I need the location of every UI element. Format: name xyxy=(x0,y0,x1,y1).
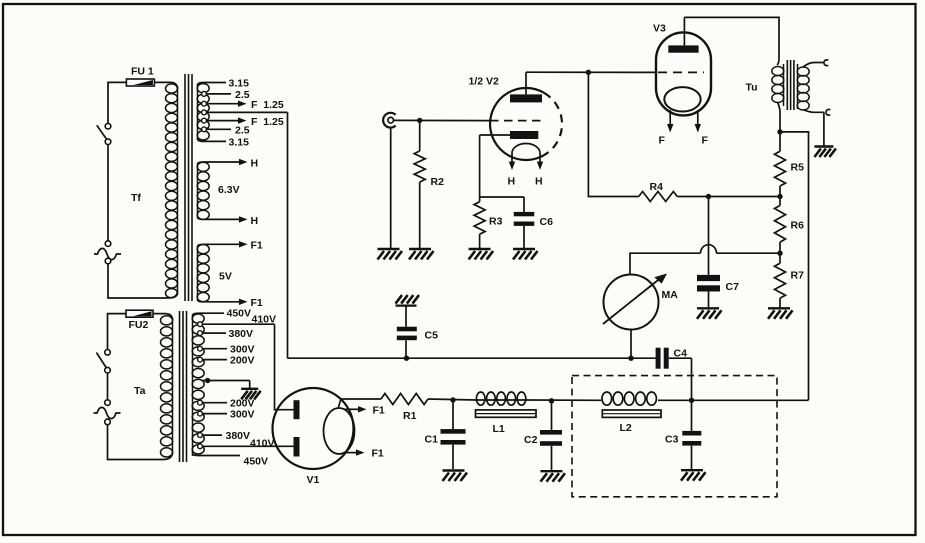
Tf secondary winding 1 (3.15/2.5/1.25V) xyxy=(197,84,209,140)
wire V2 cathode to R3 xyxy=(479,135,481,202)
Tf secondary winding 3 (5V) xyxy=(197,245,209,302)
V3 label xyxy=(653,23,666,35)
ground (C3) xyxy=(681,470,706,481)
svg-text:200V: 200V xyxy=(230,355,255,367)
rectifier tube V1 xyxy=(273,388,354,469)
svg-text:F 1.25: F 1.25 xyxy=(251,99,284,111)
wire R4 to divider xyxy=(677,196,780,198)
svg-text:V3: V3 xyxy=(653,23,666,35)
wire AC to Tf primary bottom xyxy=(108,264,178,298)
V3 filament lead F right xyxy=(695,110,709,147)
V1 label xyxy=(307,474,320,486)
svg-text:C7: C7 xyxy=(726,281,740,293)
svg-text:Tu: Tu xyxy=(746,82,758,94)
transformer Tf label xyxy=(131,192,141,204)
svg-text:C6: C6 xyxy=(540,216,554,228)
V1 filament lead F1 bottom xyxy=(344,448,384,460)
ground (connector) xyxy=(378,249,403,260)
transformer Ta core xyxy=(180,311,187,462)
svg-text:R4: R4 xyxy=(650,181,664,193)
svg-text:3.15: 3.15 xyxy=(229,137,250,149)
node C1 xyxy=(450,397,455,402)
wire connector to V2 grid xyxy=(394,119,490,121)
V3 grid (dashed) xyxy=(658,71,704,73)
wire connector shield to ground xyxy=(390,128,392,249)
svg-text:H: H xyxy=(535,176,543,188)
ground (R2) xyxy=(409,249,434,260)
capacitor C1 xyxy=(425,400,466,469)
wire rail Tf centre tap down xyxy=(287,112,289,358)
svg-text:F 1.25: F 1.25 xyxy=(251,116,284,128)
transformer Ta secondary winding xyxy=(192,314,204,456)
inductor L1 xyxy=(476,392,537,435)
tap 410V (lower) to V1 anode 2 xyxy=(198,438,294,450)
capacitor C7 xyxy=(697,197,739,308)
meter MA xyxy=(603,274,678,330)
ground (C7) xyxy=(697,308,722,319)
svg-text:MA: MA xyxy=(662,289,679,301)
node Tu bottom / B+ xyxy=(777,129,782,134)
tap centre to rail xyxy=(202,110,288,115)
svg-text:F1: F1 xyxy=(251,240,263,252)
transformer Ta label xyxy=(134,385,146,397)
Tu secondary bottom lead and terminal xyxy=(803,109,830,115)
transformer Tu secondary xyxy=(797,64,809,110)
capacitor C6 xyxy=(514,212,553,249)
wire MA bottom lead xyxy=(630,330,632,359)
wire Tf rail to C4 xyxy=(288,357,656,359)
tap 450V (bottom) xyxy=(193,453,269,468)
svg-text:C5: C5 xyxy=(425,330,439,342)
node C3/C4 xyxy=(689,398,694,403)
capacitor C2 xyxy=(524,401,562,471)
svg-text:C1: C1 xyxy=(425,434,439,446)
wire L2 to C3 node to B+ rail xyxy=(658,399,809,401)
tap 2.5 xyxy=(202,89,250,101)
svg-text:3.15: 3.15 xyxy=(229,78,250,90)
switch S1 (mains Tf) xyxy=(97,123,111,144)
node C7 xyxy=(706,194,711,199)
svg-text:C2: C2 xyxy=(524,434,538,446)
wire cathode node to C6 xyxy=(480,197,524,212)
ground (C5, inverted) xyxy=(396,295,420,306)
svg-text:380V: 380V xyxy=(229,328,254,340)
tap 3.15 (top) xyxy=(198,78,250,90)
tap 300V xyxy=(198,344,255,356)
wire Tu secondary to ground xyxy=(823,112,825,146)
wire L1 to C2 node to L2 xyxy=(526,399,601,401)
capacitor C5 xyxy=(397,306,438,359)
ground (Ta centre tap) xyxy=(241,389,261,400)
resistor R6 xyxy=(775,197,805,254)
AC mains symbol (Tf) xyxy=(94,241,121,264)
tap 410V (top) to V1 anode 1 xyxy=(198,314,294,410)
svg-text:6.3V: 6.3V xyxy=(218,184,240,196)
wire V2 anode to V3 grid xyxy=(526,71,657,73)
transformer Tf core xyxy=(185,74,192,301)
V2 heater lead H left xyxy=(508,153,516,188)
svg-text:FU2: FU2 xyxy=(129,319,149,331)
svg-text:H: H xyxy=(251,158,259,170)
capacitor C3 xyxy=(665,400,701,469)
node R5/R6 xyxy=(777,194,782,199)
node R2 xyxy=(417,118,422,123)
Tu label xyxy=(746,82,758,94)
svg-text:F: F xyxy=(659,135,666,147)
wire MA top lead to divider xyxy=(630,245,780,275)
V1 anode 1 xyxy=(294,400,300,419)
tap 380V (lower) xyxy=(198,430,250,442)
svg-text:410V: 410V xyxy=(252,314,277,326)
svg-text:2.5: 2.5 xyxy=(235,89,250,101)
wire fuse FU2 to switch xyxy=(108,314,127,350)
ground (R7) xyxy=(768,308,793,319)
svg-text:L1: L1 xyxy=(493,423,505,435)
fuse FU1 xyxy=(126,66,154,87)
svg-text:2.5: 2.5 xyxy=(235,125,250,137)
ground (R3) xyxy=(469,249,494,260)
node C2 xyxy=(549,398,554,403)
fuse FU2 xyxy=(126,310,153,331)
AC mains symbol (Ta) xyxy=(94,400,121,425)
tap F 1.25 (upper) xyxy=(202,99,284,111)
wire R1 to C1 node to L1 xyxy=(428,399,476,400)
V2 label xyxy=(469,76,500,88)
wire V3 anode to Tu primary xyxy=(684,17,779,65)
node C5 xyxy=(404,356,409,361)
svg-text:R3: R3 xyxy=(489,216,503,228)
wire switch to AC symbol (Ta) xyxy=(107,373,109,400)
V2 heater xyxy=(512,144,540,154)
ground (C1) xyxy=(443,471,468,482)
Tf secondary winding 2 (6.3V) xyxy=(197,162,209,219)
svg-text:R5: R5 xyxy=(791,162,805,174)
svg-text:F1: F1 xyxy=(251,297,263,309)
tap F1 (upper) xyxy=(198,240,263,252)
wire node to R5 xyxy=(779,132,781,151)
transformer Tu core xyxy=(787,60,794,110)
wire B+ rail xyxy=(780,132,809,400)
resistor R4 xyxy=(639,181,678,202)
V2 grid (dashed) xyxy=(490,120,542,122)
svg-text:1/2 V2: 1/2 V2 xyxy=(469,76,500,88)
svg-text:H: H xyxy=(508,176,516,188)
svg-text:300V: 300V xyxy=(230,409,255,421)
wire V1 output to R1 xyxy=(341,398,381,400)
node V3 grid / R4 xyxy=(586,70,591,75)
tap H (upper) xyxy=(198,158,259,170)
label 5V xyxy=(219,271,232,283)
svg-text:V1: V1 xyxy=(307,474,320,486)
label 6.3V xyxy=(218,184,240,196)
triode 1/2 V2 envelope xyxy=(490,88,562,160)
V1 anode 2 xyxy=(294,437,300,457)
tap 380V xyxy=(198,328,253,340)
node R6/R7 xyxy=(777,251,782,256)
dashed enclosure box xyxy=(572,376,777,497)
svg-text:R2: R2 xyxy=(431,176,445,188)
V3 anode xyxy=(668,17,698,52)
tap F 1.25 (lower) xyxy=(202,116,284,128)
V2 anode xyxy=(510,72,542,102)
ground (C2) xyxy=(541,471,566,482)
resistor R7 xyxy=(775,253,805,308)
tap 200V (lower) xyxy=(198,398,255,410)
Tu secondary top lead and terminal xyxy=(803,60,828,67)
svg-text:Tf: Tf xyxy=(131,192,141,204)
transformer Ta primary winding xyxy=(153,314,173,457)
resistor R2 xyxy=(414,120,444,248)
resistor R5 xyxy=(775,151,805,196)
svg-text:F: F xyxy=(702,135,709,147)
ground (C6) xyxy=(513,249,538,260)
svg-text:Ta: Ta xyxy=(134,385,146,397)
svg-text:R7: R7 xyxy=(791,270,805,282)
ground (Tu secondary) xyxy=(814,147,836,158)
V2 heater lead H right xyxy=(535,153,543,188)
svg-text:R1: R1 xyxy=(403,410,417,422)
capacitor C4 xyxy=(656,348,692,401)
tap F1 (lower) xyxy=(198,297,263,309)
svg-text:R6: R6 xyxy=(791,220,805,232)
svg-text:450V: 450V xyxy=(227,308,252,320)
V1 cathode/filament xyxy=(324,399,355,454)
svg-text:FU 1: FU 1 xyxy=(131,66,154,78)
svg-text:F1: F1 xyxy=(373,404,385,416)
svg-text:5V: 5V xyxy=(219,271,232,283)
svg-text:410V: 410V xyxy=(250,438,275,450)
V1 filament lead F1 top xyxy=(344,404,385,416)
switch S2 (mains Ta) xyxy=(96,350,110,374)
V3 filament lead F left xyxy=(659,110,674,147)
tap 300V (lower) xyxy=(198,409,255,421)
transformer Tu primary xyxy=(772,64,784,132)
tap 3.15 (bottom) xyxy=(198,137,250,149)
wire AC to Ta primary bottom xyxy=(108,425,173,460)
node MA bottom xyxy=(628,356,633,361)
V2 cathode xyxy=(480,131,539,139)
tap 450V (top) xyxy=(193,308,252,320)
svg-text:380V: 380V xyxy=(226,430,251,442)
wire switch to AC symbol xyxy=(107,145,109,241)
V3 cathode xyxy=(664,87,700,111)
tap H (lower) xyxy=(198,215,259,227)
svg-text:C4: C4 xyxy=(674,348,688,360)
tap 200V xyxy=(198,355,255,367)
output tube V3 envelope xyxy=(656,32,711,115)
inductor L2 xyxy=(602,392,661,434)
centre tap to ground xyxy=(203,378,250,389)
wire fuse FU1 to switch xyxy=(108,82,126,123)
svg-text:F1: F1 xyxy=(372,448,384,460)
tap 2.5 (lower) xyxy=(202,125,250,137)
wire node down to R4 xyxy=(588,72,638,196)
input connector J1 xyxy=(383,113,395,128)
svg-text:450V: 450V xyxy=(244,456,269,468)
resistor R3 xyxy=(474,202,502,249)
resistor R1 xyxy=(381,394,428,423)
svg-text:C3: C3 xyxy=(665,433,679,445)
transformer Tf primary winding xyxy=(154,82,177,297)
svg-text:L2: L2 xyxy=(620,422,632,434)
svg-text:H: H xyxy=(251,215,259,227)
